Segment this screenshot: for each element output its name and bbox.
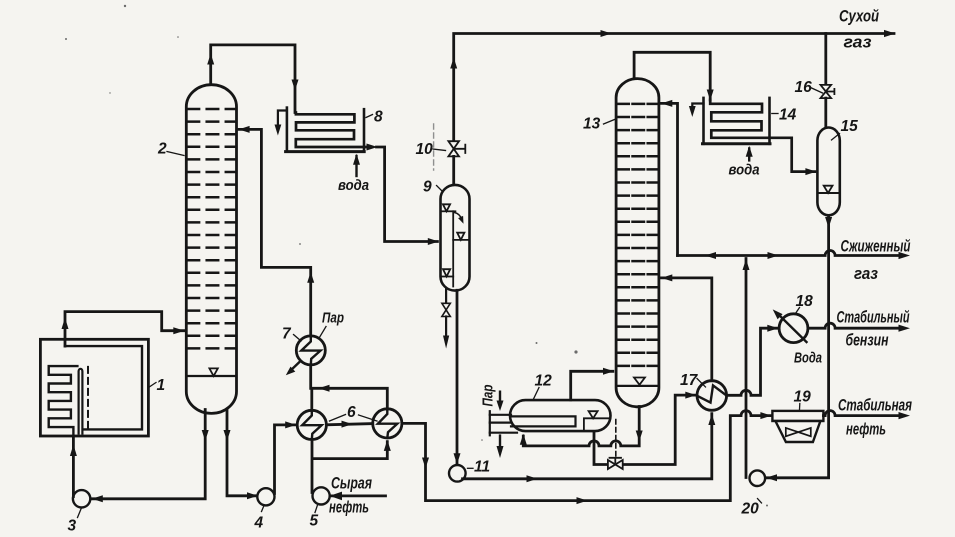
label 8 xyxy=(366,109,383,126)
wire: separator 9 bottoms to pump 11 xyxy=(454,290,461,464)
svg-text:13: 13 xyxy=(583,116,601,133)
wire: column 2 bottoms to pump 4 xyxy=(224,410,259,500)
label 1 xyxy=(149,377,166,394)
wire: cooler 18 outlet, stable gasoline product xyxy=(808,323,910,332)
svg-text:12: 12 xyxy=(535,373,553,390)
wire: column 2 bottoms to pump 3 xyxy=(92,410,209,503)
wire: dry gas header xyxy=(450,30,895,141)
label 6 xyxy=(330,404,378,421)
wire: reboiler 12 product through control valve to exchanger 17 xyxy=(594,392,696,465)
condensate outlet 12 xyxy=(499,436,501,448)
label 12 xyxy=(534,373,553,400)
svg-text:Пар: Пар xyxy=(322,310,344,327)
svg-text:19: 19 xyxy=(794,389,812,406)
valve 16 xyxy=(821,34,835,128)
label 17 xyxy=(680,372,706,389)
wire: cooler 19 outlet, stable oil product xyxy=(823,411,910,420)
ghost dashed mark near valve 10 xyxy=(433,124,435,170)
level mark column 13 xyxy=(634,378,645,385)
svg-text:18: 18 xyxy=(796,293,814,310)
furnace coil serpentine xyxy=(49,366,78,436)
svg-text:16: 16 xyxy=(795,79,813,96)
svg-text:2: 2 xyxy=(157,141,167,158)
label 4 xyxy=(254,506,265,532)
svg-text:3: 3 xyxy=(68,518,77,535)
wire: furnace outlet to column 2 (hot jet) xyxy=(62,312,185,347)
cooler 19 (air box cooler) xyxy=(772,411,823,442)
svg-text:17: 17 xyxy=(680,372,699,389)
label 10 xyxy=(416,141,446,158)
water drain valve under separator 9 xyxy=(442,289,450,349)
furnace dashed divider xyxy=(87,367,89,428)
pump 11 xyxy=(449,465,466,482)
svg-text:4: 4 xyxy=(254,515,264,532)
label Пар (at 7) xyxy=(319,310,345,340)
cooler 18 (water cooler) xyxy=(773,309,808,342)
separator 9 xyxy=(441,156,470,290)
trays column 13 xyxy=(617,104,657,366)
svg-text:1: 1 xyxy=(157,377,166,394)
svg-text:Пар: Пар xyxy=(480,385,497,407)
control valve at 12 xyxy=(608,420,623,470)
wire: exchanger 17 to cooler 18 xyxy=(727,325,779,396)
label 2 xyxy=(157,141,184,158)
wire: column 13 overhead to cooler 14 xyxy=(634,52,714,100)
wire: pump 5 discharge to exchangers 6 xyxy=(312,439,391,492)
wire: condenser 8 to separator 9 xyxy=(367,144,439,246)
heat exchangers 6 (two, crude preheat) xyxy=(297,409,402,440)
svg-text:7: 7 xyxy=(282,326,292,343)
svg-text:15: 15 xyxy=(841,118,859,135)
heat exchanger 7 (steam heater) xyxy=(286,336,326,375)
coil of condenser 8 xyxy=(296,113,366,148)
trays column 2 xyxy=(188,109,236,348)
wire: right exchanger 6 outlet to cooler 19 (stable oil run-down) xyxy=(402,411,772,505)
label 15 xyxy=(832,118,859,140)
vessel 12 (steam reboiler) xyxy=(490,392,611,458)
separator 15 (reflux drum) xyxy=(817,128,839,216)
condensate arrow 7 xyxy=(290,362,301,372)
furnace 1 (tube furnace, box) xyxy=(40,339,148,436)
wire: pump 4 discharge into left exchanger 6 xyxy=(275,421,297,493)
wire: pump 20 discharge to liquefied gas header xyxy=(743,259,750,478)
svg-text:11: 11 xyxy=(474,459,490,476)
wire: column 13 bottoms to reboiler 12 xyxy=(520,407,643,446)
furnace coil down-tube xyxy=(79,369,83,434)
level mark column 2 xyxy=(209,368,217,376)
water inlet 14 xyxy=(748,149,750,161)
column 2 (topping tower) xyxy=(186,85,236,414)
svg-text:вода: вода xyxy=(729,162,760,179)
svg-text:Сырая: Сырая xyxy=(331,475,372,493)
wire: crude oil feed into pump 5 xyxy=(330,492,386,501)
steam inlet 12 xyxy=(499,392,501,403)
column 13 (stabilizer) xyxy=(616,79,659,407)
svg-text:5: 5 xyxy=(310,513,319,530)
wire: heated crude feed into column 2 xyxy=(239,126,315,388)
label 14 xyxy=(772,107,797,124)
svg-text:9: 9 xyxy=(423,179,432,196)
svg-text:Стабильная: Стабильная xyxy=(838,397,912,415)
svg-text:нефть: нефть xyxy=(846,421,886,439)
label 5 xyxy=(310,505,319,530)
svg-text:Сжиженный: Сжиженный xyxy=(841,238,911,256)
overflow drain 8 xyxy=(278,111,287,128)
wire: between exchangers 6 xyxy=(326,421,372,428)
cooler 14 (box condenser) xyxy=(689,98,817,175)
label 7 xyxy=(282,326,301,343)
label 9 xyxy=(423,179,443,196)
label 11 xyxy=(468,459,491,476)
wire: separator 15 bottoms down to pump 20 xyxy=(766,215,832,481)
svg-text:20: 20 xyxy=(741,501,760,518)
wire: pump 11 discharge to exchanger 17 (stabilizer feed) xyxy=(463,414,716,483)
svg-text:Сухой: Сухой xyxy=(839,8,879,26)
water inlet 8 xyxy=(355,156,357,176)
wire: stabilizer feed from 17 into column 13 xyxy=(661,274,712,380)
furnace inner convection loop xyxy=(65,346,142,429)
valve 10 xyxy=(448,141,465,156)
label 18 xyxy=(796,293,814,314)
pump 5 xyxy=(313,487,330,504)
flow-over arrow inside 9 xyxy=(455,213,463,220)
label 3 xyxy=(68,509,82,535)
svg-text:6: 6 xyxy=(347,404,356,421)
coil of cooler 14 xyxy=(710,100,815,172)
condenser 8 (box cooler) xyxy=(275,108,367,176)
wire: column 2 overhead to condenser 8 xyxy=(207,45,298,113)
pump 4 xyxy=(257,488,274,505)
pump 20 xyxy=(750,470,766,486)
internals separator 9 xyxy=(442,204,469,286)
label 20 xyxy=(741,499,762,518)
svg-text:газ: газ xyxy=(844,34,873,52)
pump 3 xyxy=(70,437,90,508)
wire: liquefied gas header and reflux split xyxy=(678,251,911,260)
label 13 xyxy=(583,116,615,133)
svg-text:14: 14 xyxy=(779,107,797,124)
svg-text:газ: газ xyxy=(854,265,879,283)
svg-text:нефть: нефть xyxy=(329,499,369,517)
scan specks xyxy=(65,5,853,507)
svg-text:Вода: Вода xyxy=(794,350,822,367)
overflow drain 14 xyxy=(692,104,703,109)
svg-text:8: 8 xyxy=(374,109,383,126)
steam bundle nozzle 12 xyxy=(490,411,576,435)
wire: exchanger 6 tops manifold xyxy=(312,385,388,411)
svg-text:вода: вода xyxy=(338,177,369,194)
heat exchanger 17 (feed/bottoms exchanger) xyxy=(697,381,727,411)
wire: reflux to column 13 top xyxy=(661,100,678,256)
label 19 xyxy=(794,389,812,410)
svg-text:10: 10 xyxy=(416,141,434,158)
weir and level 12 xyxy=(584,418,608,430)
svg-text:Стабильный: Стабильный xyxy=(837,309,910,327)
wire: vessel 12 vapor return to column 13 xyxy=(571,368,614,400)
label 16 xyxy=(795,79,823,96)
